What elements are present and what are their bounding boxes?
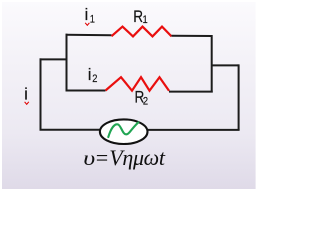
svg-text:2: 2	[143, 96, 148, 108]
svg-text:Vημωt: Vημωt	[109, 145, 166, 170]
spellcheck squiggle under i1	[85, 23, 89, 26]
wire: left branch vertical	[66, 34, 68, 92]
svg-text:=: =	[94, 145, 109, 170]
AC source V1 (ellipse)	[100, 119, 148, 144]
wire: junction horizontal connector	[40, 58, 67, 60]
svg-text:i: i	[24, 85, 28, 104]
label R1	[133, 8, 148, 27]
label i2	[88, 65, 98, 85]
spellcheck squiggle under i	[25, 102, 29, 105]
label i (total current)	[24, 85, 28, 104]
wire: right jog horizontal	[212, 64, 239, 66]
resistor R2	[106, 77, 170, 91]
svg-text:1: 1	[143, 15, 148, 27]
formula v = V eta mu omega t	[83, 145, 166, 170]
svg-text:R: R	[133, 8, 143, 27]
label i1	[85, 5, 96, 25]
svg-text:i: i	[85, 5, 89, 24]
svg-text:i: i	[88, 65, 92, 84]
wire: outer right vertical	[238, 64, 240, 129]
AC source sine symbol	[108, 122, 138, 137]
wire: right branch-join vertical	[211, 35, 213, 93]
wire: bottom right horizontal to source	[147, 129, 239, 131]
slide background	[2, 2, 256, 189]
resistor R1	[112, 27, 172, 37]
label R2	[135, 88, 149, 107]
wire: bottom left horizontal to source	[40, 129, 101, 131]
svg-text:2: 2	[92, 74, 97, 86]
wire: second branch right segment	[169, 91, 213, 93]
svg-text:1: 1	[90, 14, 95, 26]
wire: top branch left segment	[66, 34, 112, 37]
wire: left main vertical	[40, 58, 42, 129]
wire: top branch right segment	[172, 35, 212, 37]
wire: second branch left segment	[67, 90, 106, 92]
